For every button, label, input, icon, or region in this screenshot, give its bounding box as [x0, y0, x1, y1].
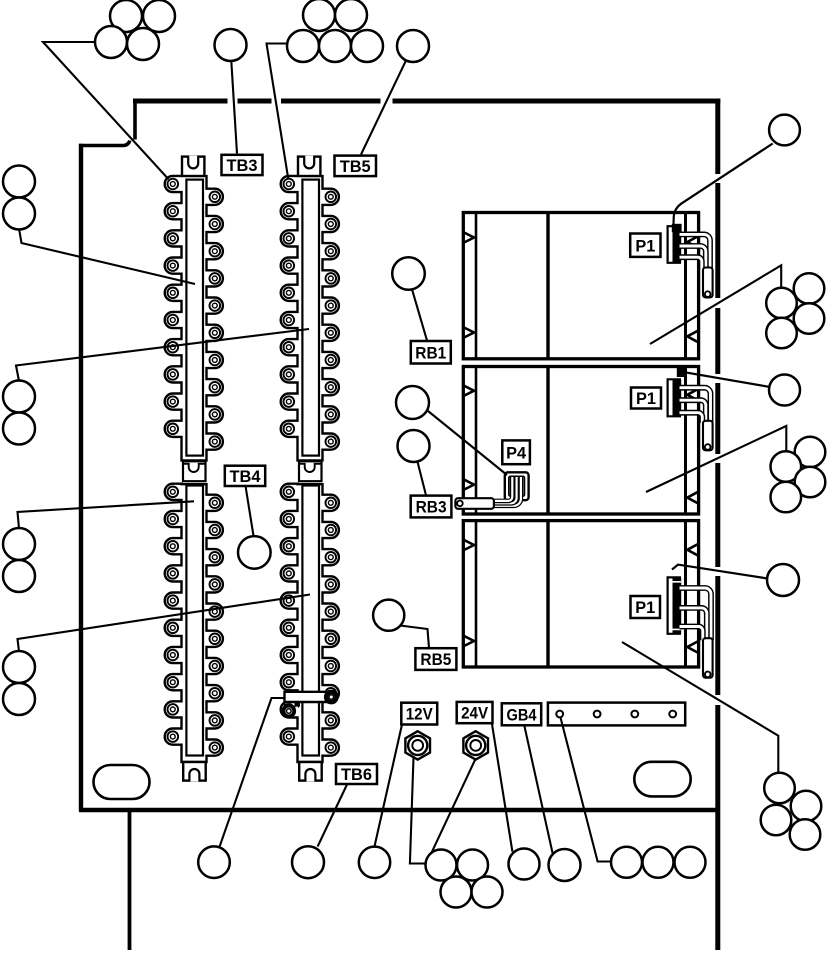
callout circle P4 [396, 386, 429, 419]
test point 24V bolt [463, 731, 488, 759]
label P1 middle [631, 388, 661, 409]
label RB3 [411, 496, 452, 518]
leader wire: relay 1 to right cluster [650, 265, 781, 344]
label TB4 [225, 466, 265, 486]
label TB5 [335, 156, 377, 177]
label 24V [457, 702, 493, 723]
callout circle right of TB5 cluster [397, 30, 429, 62]
callout circle bottom 1 [198, 846, 230, 878]
callout circles bottom right cluster [761, 773, 822, 850]
svg-text:P1: P1 [635, 598, 655, 617]
connector P4 [505, 472, 529, 500]
leader wire: RB5 label to callout [400, 626, 429, 649]
callout circles (TB5 cluster) [287, 0, 383, 62]
label TB3 [222, 155, 263, 175]
callout circles left pair 2 [3, 381, 35, 445]
leader wire: single callout to TB5 label [361, 60, 406, 154]
callout circles left pair 4 [3, 651, 35, 715]
board inner edge [79, 141, 719, 812]
label 12V [401, 703, 437, 725]
jumper wire on TB6 [283, 692, 336, 717]
callout circle bottom 4 [509, 849, 540, 880]
callout circle bottom 5 [549, 849, 581, 881]
callout circle bottom 3 [359, 847, 390, 878]
callout circles left pair 1 [3, 166, 35, 230]
label GB4 [502, 703, 541, 725]
callout circles right cluster 1 [766, 273, 824, 348]
callout circle top right [769, 115, 800, 146]
callout circle RB1 [392, 257, 425, 290]
svg-text:RB1: RB1 [415, 343, 446, 362]
leader wire: left pair 2 to TB5 [16, 329, 309, 381]
leader wire: GB4 label to callout [524, 726, 552, 854]
relay socket (top) [462, 213, 698, 359]
callout circles bottom 12V/24V cluster [426, 850, 503, 908]
leader wire: 12V label to callout [375, 725, 403, 847]
label TB6 [336, 764, 377, 784]
svg-text:12V: 12V [406, 705, 434, 724]
connector P1 (middle relay) [668, 368, 713, 451]
terminal block TB6 [281, 461, 339, 781]
leader wire: 12V bolt to callout [410, 758, 425, 864]
connector P4 wires and sleeve [455, 477, 521, 509]
callout circle bottom 2 [292, 846, 324, 878]
leader wire: P1 top to callout [674, 144, 773, 225]
label P4 [502, 440, 530, 464]
ground strip GB4 with pin holes [548, 703, 685, 726]
leader wire: left pair 4 to TB6 [18, 595, 311, 652]
leader wire: RB1 label to callout [412, 289, 427, 340]
svg-text:GB4: GB4 [507, 705, 537, 724]
callout circles right cluster 2 [771, 437, 826, 513]
terminal block TB4 [165, 461, 223, 781]
mounting slot (left oval) [94, 765, 150, 799]
callout circles left pair 3 [3, 528, 35, 592]
leader wire: cluster to TB3 first terminal [43, 42, 169, 179]
leader wire: relay 2 to right cluster [646, 426, 786, 492]
svg-text:24V: 24V [461, 704, 489, 723]
leader wire: callout to P4 [428, 411, 507, 475]
leader wire: TB4 label to callout [246, 486, 254, 536]
label P1 top [630, 234, 660, 257]
leader wire: 24V bolt to callout [431, 759, 476, 854]
callout circle RB3 [398, 430, 430, 462]
leader wire: relay 3 to bottom right cluster [622, 642, 778, 772]
connector P1 (top relay) [668, 224, 713, 298]
callout circles bottom row of three [611, 847, 706, 878]
label RB1 [411, 341, 451, 364]
callout circle above TB3 [215, 29, 247, 61]
callout circle TB4 [238, 536, 271, 569]
svg-text:RB5: RB5 [420, 650, 451, 669]
leader wire: left pair 1 to TB3 [19, 229, 195, 285]
leader wire: left pair 3 to TB4 [18, 501, 195, 528]
callout circle RB5 [373, 600, 404, 631]
leader wire: RB3 label to callout [418, 462, 427, 496]
leader wire: single callout to TB3 label [231, 61, 237, 154]
svg-text:TB6: TB6 [341, 765, 372, 784]
relay socket (bottom) [462, 521, 698, 667]
svg-text:P1: P1 [635, 236, 655, 255]
connector P1 (bottom relay) [668, 577, 713, 677]
callout circles (top left cluster) [95, 0, 175, 60]
leader wire: strip to callout [561, 718, 612, 862]
svg-text:RB3: RB3 [416, 498, 447, 517]
terminal block TB3 [165, 156, 223, 461]
test point 12V bolt [405, 731, 430, 759]
leader wire: TB6 label to callout [318, 785, 347, 847]
leader wire: P1 middle to callout [679, 372, 770, 387]
leader wire: 24V label to callout [492, 724, 513, 852]
label P1 bottom [631, 596, 661, 618]
relay socket (middle) [462, 367, 698, 515]
callout circle right single 2 [769, 375, 800, 406]
leader wire: jumper to bottom callout [220, 698, 285, 847]
svg-text:TB5: TB5 [340, 157, 371, 176]
callout circle right single 3 [767, 564, 799, 596]
svg-text:P4: P4 [506, 443, 527, 462]
label RB5 [415, 648, 456, 670]
board outer frame [130, 99, 721, 951]
leader wire: P1 bottom to callout [672, 565, 767, 579]
svg-text:TB3: TB3 [227, 156, 258, 175]
mounting slot (right oval) [634, 762, 690, 797]
svg-text:P1: P1 [636, 389, 656, 408]
terminal block TB5 [281, 156, 339, 461]
leader wire: cluster to TB5 first terminal [267, 44, 289, 179]
svg-text:TB4: TB4 [230, 467, 262, 486]
